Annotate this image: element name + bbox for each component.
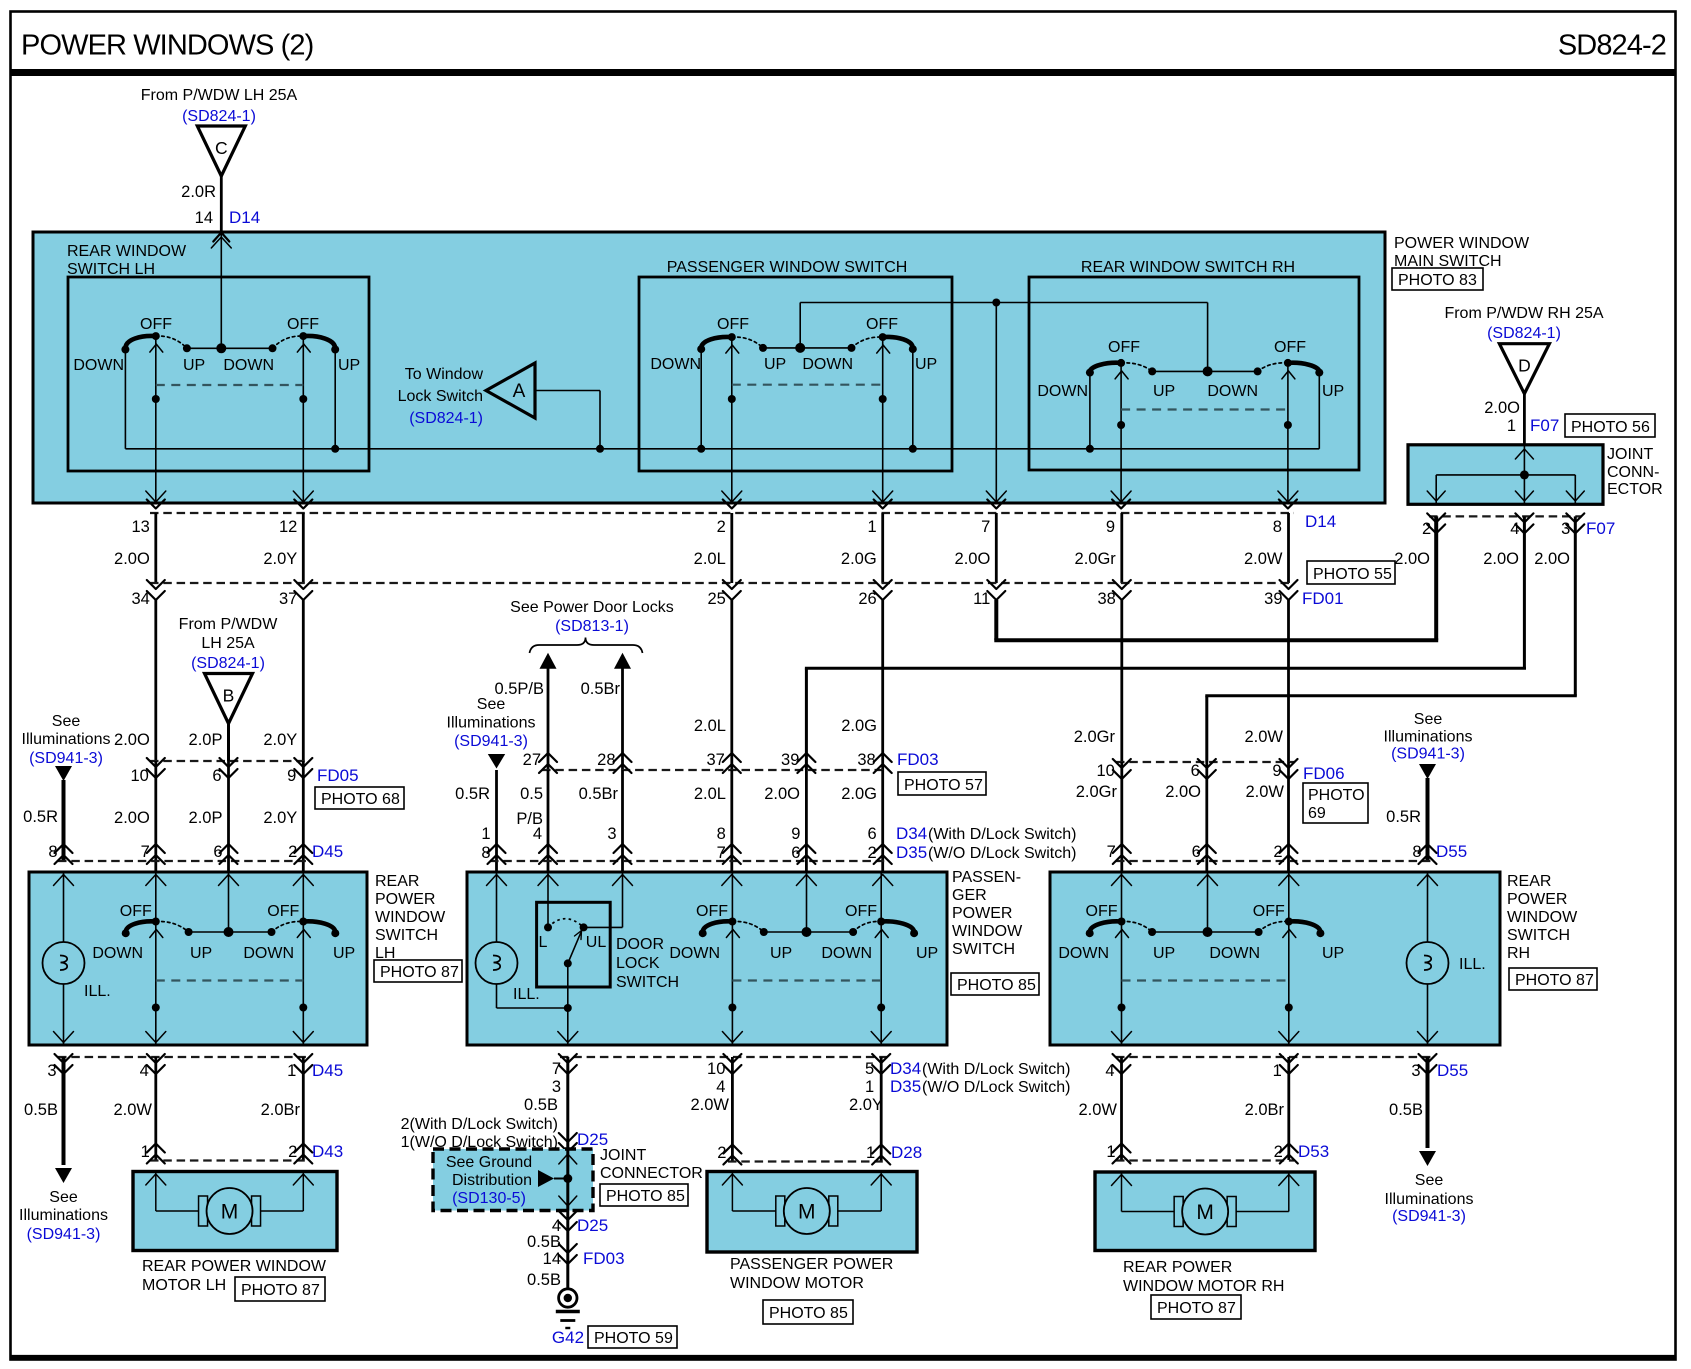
svg-text:7: 7 xyxy=(1107,843,1116,861)
svg-text:2(With D/Lock Switch): 2(With D/Lock Switch) xyxy=(401,1116,558,1133)
svg-text:UP: UP xyxy=(916,945,938,962)
svg-text:FD06: FD06 xyxy=(1303,764,1345,783)
svg-text:(SD941-3): (SD941-3) xyxy=(454,733,528,750)
pin chevrons FD03-39 xyxy=(797,753,815,762)
svg-text:CONNECTOR: CONNECTOR xyxy=(600,1165,703,1182)
switch REAR WINDOW SWITCH LH (DOWN-OFF-UP pair) xyxy=(125,336,155,350)
pin chevrons D55 low-4 xyxy=(1113,1054,1131,1063)
svg-text:37: 37 xyxy=(279,590,297,608)
svg-text:POWER: POWER xyxy=(1507,891,1567,908)
svg-text:2.0W: 2.0W xyxy=(690,1096,729,1114)
pin chevrons F07-3 xyxy=(1566,513,1584,522)
connector line FD05 xyxy=(150,760,309,762)
svg-text:LH 25A: LH 25A xyxy=(201,635,255,652)
svg-text:A: A xyxy=(513,381,526,402)
svg-text:6: 6 xyxy=(791,844,800,862)
pin chevrons F07-4 xyxy=(1515,513,1533,522)
wire lamp to pin3 LH xyxy=(63,984,65,1044)
svg-text:PASSEN-: PASSEN- xyxy=(952,869,1021,886)
pin chevrons D34/D35-8 xyxy=(723,844,741,853)
pin chevrons FD03-38 xyxy=(874,753,892,762)
svg-text:14: 14 xyxy=(543,1250,561,1268)
svg-text:D: D xyxy=(1518,356,1531,376)
svg-text:D34: D34 xyxy=(890,1059,921,1078)
svg-text:See Ground: See Ground xyxy=(446,1154,532,1171)
svg-text:UP: UP xyxy=(333,945,355,962)
svg-text:2: 2 xyxy=(717,518,726,536)
pin chevrons FD03 ground xyxy=(559,1244,577,1253)
svg-text:PASSENGER POWER: PASSENGER POWER xyxy=(730,1256,893,1273)
wire 2.0G (D14-FD01) xyxy=(881,513,884,583)
svg-text:UP: UP xyxy=(1322,945,1344,962)
connector line D45 upper xyxy=(58,860,309,862)
callout box PHOTO 56 xyxy=(1565,414,1655,437)
wire 2.0O F07-4 xyxy=(1523,516,1526,668)
callout box PHOTO 87 (switch RH) xyxy=(1509,968,1597,990)
illumination feed arrow right xyxy=(1419,764,1436,779)
lamp ILL PASS xyxy=(476,942,518,984)
svg-text:4: 4 xyxy=(716,1078,725,1096)
wire LH S1 OFF to pin13 xyxy=(155,336,157,503)
wire 2.0O FD03 to switch xyxy=(805,770,808,872)
svg-text:D35: D35 xyxy=(896,843,927,862)
svg-text:D53: D53 xyxy=(1298,1142,1329,1161)
svg-text:(With D/Lock Switch): (With D/Lock Switch) xyxy=(928,826,1076,843)
wire OFF1 col PASS xyxy=(731,873,733,1044)
wire 2.0R from C to switch box xyxy=(220,176,223,232)
connector line FD03 xyxy=(542,769,888,771)
svg-text:1: 1 xyxy=(868,518,877,536)
svg-text:2: 2 xyxy=(1422,520,1431,538)
pin chevrons FD01-38 xyxy=(1113,580,1131,589)
pin chevrons D34/D35-6 xyxy=(874,844,892,853)
wire ground col upper xyxy=(566,1057,569,1149)
svg-text:JOINT: JOINT xyxy=(1607,446,1653,463)
svg-text:PHOTO 85: PHOTO 85 xyxy=(957,977,1036,994)
svg-text:2: 2 xyxy=(1274,1143,1283,1161)
svg-text:7: 7 xyxy=(141,843,150,861)
joint connector junction xyxy=(1520,470,1529,479)
wire 2.0O F07-2 xyxy=(1434,516,1438,640)
svg-text:1: 1 xyxy=(1507,417,1516,435)
svg-text:FD03: FD03 xyxy=(897,750,939,769)
wire drop to FD03-39 xyxy=(805,668,808,770)
wire OFF1 col RH xyxy=(1121,873,1123,1044)
svg-text:(W/O D/Lock Switch): (W/O D/Lock Switch) xyxy=(922,1079,1070,1096)
inner box PASSENGER WINDOW SWITCH xyxy=(639,277,952,471)
svg-text:D45: D45 xyxy=(312,1061,343,1080)
pin chevrons D55 low-3 xyxy=(1419,1054,1437,1063)
wire center col LH xyxy=(228,873,230,932)
svg-text:69: 69 xyxy=(1308,805,1326,822)
svg-text:FD01: FD01 xyxy=(1302,589,1344,608)
svg-text:LOCK: LOCK xyxy=(616,955,660,972)
svg-text:14: 14 xyxy=(195,209,213,227)
ground symbol G42 xyxy=(559,1289,577,1307)
svg-text:PHOTO 87: PHOTO 87 xyxy=(380,964,459,981)
svg-text:2.0O: 2.0O xyxy=(114,731,150,749)
pin chevrons FD01-25 xyxy=(723,580,741,589)
svg-text:(SD824-1): (SD824-1) xyxy=(191,655,265,672)
wire 2.0W FD06 to switch xyxy=(1287,762,1290,872)
junction rail/UP2-LH xyxy=(331,445,339,453)
callout box PHOTO 69 xyxy=(1303,783,1368,823)
bus wire FD06-6 to F07-3 xyxy=(1205,694,1577,697)
wire PASS UP2 to rail xyxy=(912,348,914,449)
svg-text:2: 2 xyxy=(288,843,297,861)
svg-text:2.0G: 2.0G xyxy=(841,550,877,568)
wire 2.0O F07-3 xyxy=(1574,516,1577,695)
svg-text:PHOTO 59: PHOTO 59 xyxy=(594,1330,673,1347)
wire PASS S2 OFF to pin1 xyxy=(882,335,884,503)
svg-text:OFF: OFF xyxy=(1086,903,1118,920)
linkage node 1 RH xyxy=(1118,1004,1126,1012)
pin chevrons D55-7 xyxy=(1113,844,1131,853)
pin chevrons F07-2 xyxy=(1427,513,1445,522)
box REAR POWER WINDOW SWITCH LH xyxy=(29,872,367,1045)
svg-text:REAR: REAR xyxy=(1507,873,1551,890)
callout box PHOTO 85 (ground JC) xyxy=(600,1184,688,1206)
svg-text:7: 7 xyxy=(717,844,726,862)
svg-text:25: 25 xyxy=(707,590,725,608)
svg-text:12: 12 xyxy=(279,518,297,536)
svg-text:OFF: OFF xyxy=(1274,339,1306,356)
svg-text:SWITCH LH: SWITCH LH xyxy=(67,261,155,278)
pin chevrons FD01-34 xyxy=(147,580,165,589)
svg-text:2.0O: 2.0O xyxy=(1484,399,1520,417)
exit arrows LH xyxy=(146,1032,166,1043)
wire RH S1 OFF to pin9 xyxy=(1120,363,1122,503)
svg-text:2.0G: 2.0G xyxy=(841,717,877,735)
svg-text:PHOTO 87: PHOTO 87 xyxy=(241,1282,320,1299)
junction rail/DOWN1-PASS xyxy=(697,445,705,453)
svg-text:OFF: OFF xyxy=(845,903,877,920)
svg-text:Illuminations: Illuminations xyxy=(1385,1191,1474,1208)
box REAR POWER WINDOW MOTOR RH xyxy=(1095,1172,1315,1251)
joint connector bus xyxy=(1436,474,1575,476)
svg-text:WINDOW MOTOR RH: WINDOW MOTOR RH xyxy=(1123,1278,1284,1295)
pin chevrons FD03-37 xyxy=(723,753,741,762)
svg-text:GER: GER xyxy=(952,887,987,904)
exit arrow PASS ground xyxy=(558,1032,578,1043)
wire RH center feed drop xyxy=(1207,303,1209,372)
svg-text:4: 4 xyxy=(1510,520,1519,538)
svg-text:7: 7 xyxy=(981,518,990,536)
illumination out arrow RH xyxy=(1419,1151,1436,1166)
svg-text:Distribution: Distribution xyxy=(452,1172,532,1189)
connector line D28 xyxy=(728,1160,888,1162)
switch REAR WINDOW SWITCH RH (DOWN-OFF-UP pair) xyxy=(1090,363,1121,373)
svg-text:26: 26 xyxy=(858,590,876,608)
svg-text:0.5B: 0.5B xyxy=(527,1233,561,1251)
callout box PHOTO 87 (motor LH) xyxy=(235,1277,325,1301)
svg-text:POWER: POWER xyxy=(952,905,1012,922)
svg-text:UP: UP xyxy=(190,945,212,962)
box REAR POWER WINDOW SWITCH RH xyxy=(1050,872,1500,1045)
svg-text:DOWN: DOWN xyxy=(669,945,720,962)
svg-text:See: See xyxy=(1415,1172,1444,1189)
bus wire FD01-11 to F07-2 (thick) xyxy=(994,638,1438,642)
callout box PHOTO 55 xyxy=(1307,561,1395,584)
svg-text:RH: RH xyxy=(1507,945,1530,962)
svg-text:2: 2 xyxy=(717,1144,726,1162)
svg-text:UP: UP xyxy=(1153,383,1175,400)
svg-text:0.5R: 0.5R xyxy=(23,808,58,826)
svg-text:10: 10 xyxy=(1096,762,1114,780)
wire PASS center feed riser xyxy=(799,303,801,348)
ground distribution tap arrow xyxy=(538,1170,554,1187)
linkage node PASS S2 xyxy=(879,395,887,403)
svg-text:DOWN: DOWN xyxy=(243,945,294,962)
arrow up 0.5Br to door locks xyxy=(614,653,631,669)
wire OFF2 col LH xyxy=(302,873,304,1044)
entry arrows PASS box xyxy=(487,875,507,886)
linkage node 2 RH xyxy=(1285,1004,1293,1012)
linkage node 2 LH xyxy=(299,1004,307,1012)
pin chevrons D34 low-5 xyxy=(872,1054,890,1063)
lamp ILL LH xyxy=(43,942,85,984)
switch pair LH xyxy=(126,921,156,933)
pin chevron D14-13 xyxy=(147,500,165,509)
svg-text:2: 2 xyxy=(288,1143,297,1161)
svg-text:DOWN: DOWN xyxy=(1209,945,1260,962)
svg-text:2.0W: 2.0W xyxy=(1078,1101,1117,1119)
svg-text:DOWN: DOWN xyxy=(650,356,701,373)
wire OFF2 col PASS xyxy=(880,873,882,1044)
svg-text:UL: UL xyxy=(586,934,607,951)
wire pin7 drop xyxy=(995,303,997,504)
motor M PASSENGER POWER WINDOW MOTOR xyxy=(784,1188,830,1234)
svg-text:SWITCH: SWITCH xyxy=(375,927,438,944)
svg-text:OFF: OFF xyxy=(140,316,172,333)
wire to window lock switch xyxy=(599,391,601,449)
svg-text:2.0L: 2.0L xyxy=(694,785,726,803)
svg-text:(SD824-1): (SD824-1) xyxy=(409,410,483,427)
svg-text:2.0L: 2.0L xyxy=(694,550,726,568)
svg-text:D43: D43 xyxy=(312,1142,343,1161)
svg-text:1: 1 xyxy=(287,1062,296,1080)
pin chevrons FD05-9 xyxy=(294,758,312,767)
svg-text:39: 39 xyxy=(781,751,799,769)
entry arrows RH xyxy=(1418,875,1438,886)
svg-text:PHOTO 85: PHOTO 85 xyxy=(769,1305,848,1322)
svg-text:Illuminations: Illuminations xyxy=(447,715,536,732)
svg-text:(With D/Lock Switch): (With D/Lock Switch) xyxy=(922,1061,1070,1078)
svg-text:2.0L: 2.0L xyxy=(694,717,726,735)
svg-text:2.0P: 2.0P xyxy=(189,809,223,827)
callout box PHOTO 68 xyxy=(315,787,404,809)
svg-text:3: 3 xyxy=(1411,1062,1420,1080)
wire center col PASS xyxy=(806,873,808,932)
mech linkage RH (dashed) xyxy=(1122,979,1289,981)
svg-text:D28: D28 xyxy=(891,1143,922,1162)
pin chevrons D25 box top xyxy=(559,1133,577,1142)
wire 2.0Br to motor RH xyxy=(1287,1057,1290,1160)
linkage node LH S2 xyxy=(299,395,307,403)
svg-text:DOWN: DOWN xyxy=(802,356,853,373)
svg-text:UP: UP xyxy=(1322,383,1344,400)
brush terminals REAR POWER WINDOW MOTOR LH xyxy=(199,1196,208,1226)
svg-text:To Window: To Window xyxy=(405,366,484,383)
door lock contact L xyxy=(544,923,552,931)
pin chevrons D45 low-1 xyxy=(294,1054,312,1063)
svg-text:(SD824-1): (SD824-1) xyxy=(182,108,256,125)
pin chevrons FD03-28 xyxy=(614,753,632,762)
svg-text:2.0O: 2.0O xyxy=(955,550,991,568)
wire drop to FD06-6 xyxy=(1205,696,1208,762)
pin chevrons D55-2 xyxy=(1280,844,1298,853)
linkage node 2 PASS low xyxy=(877,1004,885,1012)
svg-text:G42: G42 xyxy=(552,1328,584,1347)
svg-text:UP: UP xyxy=(183,357,205,374)
svg-text:D25: D25 xyxy=(577,1216,608,1235)
wire 2.0W to motor LH xyxy=(154,1057,157,1160)
svg-text:2.0Y: 2.0Y xyxy=(849,1096,883,1114)
wire ground through JC xyxy=(566,1149,569,1211)
pin chevrons D45-2 xyxy=(294,844,312,853)
entry arrows REAR POWER WINDOW MOTOR RH xyxy=(1112,1175,1132,1186)
svg-text:6: 6 xyxy=(868,825,877,843)
wire center col RH xyxy=(1207,873,1209,932)
svg-text:See: See xyxy=(52,713,81,730)
pin chevron D14-1 xyxy=(874,500,892,509)
svg-text:OFF: OFF xyxy=(717,316,749,333)
door lock common node xyxy=(564,959,572,967)
JC ground arrows xyxy=(559,1154,577,1164)
svg-text:FD03: FD03 xyxy=(583,1249,625,1268)
svg-text:9: 9 xyxy=(1272,762,1281,780)
linkage node PASS S1 xyxy=(728,395,736,403)
svg-text:38: 38 xyxy=(857,751,875,769)
svg-text:8: 8 xyxy=(48,843,57,861)
connector triangle C xyxy=(197,126,245,176)
exit arrow lamp RH xyxy=(1418,1032,1438,1043)
svg-text:2.0P: 2.0P xyxy=(189,731,223,749)
svg-text:D55: D55 xyxy=(1436,842,1467,861)
svg-text:DOWN: DOWN xyxy=(92,945,143,962)
exit arrows RH xyxy=(1112,1032,1132,1043)
svg-text:1: 1 xyxy=(1106,1143,1115,1161)
callout box PHOTO 85 (pass motor) xyxy=(763,1300,853,1324)
svg-text:ECTOR: ECTOR xyxy=(1607,481,1663,498)
wires to motor brushes REAR POWER WINDOW MOTOR LH xyxy=(155,1172,157,1212)
wire LH S2 OFF to pin12 xyxy=(302,335,304,503)
svg-text:0.5: 0.5 xyxy=(520,785,543,803)
wire OFF2 col RH xyxy=(1288,873,1290,1044)
switch box exit arrows xyxy=(146,491,166,502)
linkage node RH S1 xyxy=(1117,421,1125,429)
svg-text:D14: D14 xyxy=(1305,512,1336,531)
brush terminals REAR POWER WINDOW MOTOR RH xyxy=(1174,1197,1183,1227)
wire ground below JC xyxy=(566,1211,569,1290)
svg-text:See: See xyxy=(477,696,506,713)
svg-text:ILL.: ILL. xyxy=(84,983,111,1000)
svg-text:DOOR: DOOR xyxy=(616,936,664,953)
motor M REAR POWER WINDOW MOTOR LH xyxy=(207,1188,253,1234)
svg-text:6: 6 xyxy=(213,843,222,861)
svg-text:B: B xyxy=(223,686,235,706)
connector triangle D xyxy=(1499,344,1549,394)
svg-text:3: 3 xyxy=(552,1078,561,1096)
mech linkage PASS (dashed) xyxy=(732,384,883,386)
svg-text:OFF: OFF xyxy=(120,903,152,920)
pin chevrons D25 top xyxy=(559,1054,577,1063)
svg-text:27: 27 xyxy=(523,751,541,769)
pin chevrons D34/D35-4 xyxy=(539,844,557,853)
wires to motor brushes REAR POWER WINDOW MOTOR RH xyxy=(1121,1172,1123,1212)
pin chevrons D45 low-4 xyxy=(147,1054,165,1063)
pin chevrons D43-1 xyxy=(147,1144,165,1153)
svg-text:PHOTO 57: PHOTO 57 xyxy=(904,777,983,794)
wire 2.0G FD03 to switch xyxy=(881,770,884,872)
svg-text:4: 4 xyxy=(1105,1062,1114,1080)
pin chevrons FD01-39 xyxy=(1280,580,1298,589)
svg-text:PASSENGER WINDOW SWITCH: PASSENGER WINDOW SWITCH xyxy=(667,259,908,276)
svg-text:Lock Switch: Lock Switch xyxy=(398,388,483,405)
svg-text:M: M xyxy=(1196,1201,1214,1224)
svg-text:D34: D34 xyxy=(896,824,927,843)
pin chevrons D55-8 xyxy=(1419,844,1437,853)
svg-text:2.0O: 2.0O xyxy=(114,550,150,568)
svg-text:8: 8 xyxy=(481,844,490,862)
svg-text:2.0R: 2.0R xyxy=(181,183,216,201)
wire PASS DOWN1 to rail xyxy=(700,349,702,449)
svg-text:PHOTO 55: PHOTO 55 xyxy=(1313,566,1392,583)
svg-text:C: C xyxy=(215,138,228,158)
svg-text:(SD941-3): (SD941-3) xyxy=(29,750,103,767)
pin chevron at box entry xyxy=(213,233,229,242)
svg-text:OFF: OFF xyxy=(1108,339,1140,356)
svg-text:ILL.: ILL. xyxy=(1459,956,1486,973)
svg-text:8: 8 xyxy=(1273,518,1282,536)
connector triangle A (to window lock switch) xyxy=(486,363,535,418)
wire 2.0Y (D14-FD01) xyxy=(302,513,305,583)
arrow up 0.5P/B to door locks xyxy=(540,653,557,669)
pin chevron D14-7 xyxy=(987,500,1005,509)
callout box PHOTO 85 (switch) xyxy=(951,973,1039,995)
svg-text:0.5Br: 0.5Br xyxy=(579,785,619,803)
svg-text:(SD941-3): (SD941-3) xyxy=(1392,1208,1466,1225)
wire doorlock common down xyxy=(567,963,569,1044)
pin chevrons FD06-10 xyxy=(1113,759,1131,768)
svg-text:2.0Gr: 2.0Gr xyxy=(1075,550,1117,568)
wire 2.0Y to pass motor xyxy=(880,1057,883,1161)
svg-text:8: 8 xyxy=(1412,843,1421,861)
wire 2.0W to pass motor xyxy=(731,1057,734,1161)
wire 2.0L FD03 to switch xyxy=(730,770,733,872)
svg-text:(SD130-5): (SD130-5) xyxy=(452,1190,526,1207)
svg-text:SD824-2: SD824-2 xyxy=(1558,30,1666,62)
door lock wiper arm xyxy=(568,931,582,963)
svg-text:0.5B: 0.5B xyxy=(1389,1101,1423,1119)
wire 0.5Br FD03 to switch xyxy=(621,770,624,872)
svg-text:REAR: REAR xyxy=(375,873,419,890)
door lock contact UL xyxy=(580,923,588,931)
wire lamp feed PASS xyxy=(496,873,498,942)
svg-text:2.0G: 2.0G xyxy=(841,785,877,803)
pin chevron D14-8 xyxy=(1279,500,1297,509)
connector line D55 lower xyxy=(1116,1056,1431,1058)
illumination out arrow LH xyxy=(55,1168,72,1183)
svg-text:2: 2 xyxy=(868,844,877,862)
connector triangle B xyxy=(205,674,253,724)
pin chevrons FD01-37 xyxy=(294,580,312,589)
svg-text:F07: F07 xyxy=(1530,416,1559,435)
svg-text:4: 4 xyxy=(140,1062,149,1080)
svg-text:2.0W: 2.0W xyxy=(1245,783,1284,801)
wire 2.0O FD06 to switch xyxy=(1205,762,1208,872)
svg-text:UP: UP xyxy=(1153,945,1175,962)
